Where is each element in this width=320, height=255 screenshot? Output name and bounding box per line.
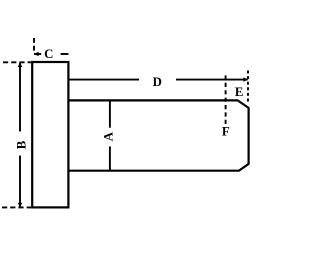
- arrowhead B bottom: [18, 203, 22, 208]
- dimension line B lower segment: [19, 156, 21, 208]
- svg-text:D: D: [153, 75, 162, 89]
- pin head outline: [32, 62, 68, 207]
- svg-text:F: F: [222, 125, 230, 139]
- extension line B bottom (dashed): [2, 206, 31, 208]
- pin shank outline with chamfered end: [68, 100, 248, 170]
- svg-text:A: A: [101, 131, 115, 141]
- dimension line A lower segment: [109, 146, 111, 170]
- dimension line B upper segment: [19, 63, 21, 132]
- extension line F (dashed vertical): [225, 75, 227, 125]
- extension line C left (dashed vertical): [33, 38, 35, 53]
- extension line end-face (dashed vertical): [247, 71, 249, 104]
- svg-text:C: C: [44, 47, 53, 61]
- arrowhead B top: [18, 62, 22, 67]
- svg-text:E: E: [235, 85, 244, 99]
- extension line B top (dashed): [3, 61, 31, 63]
- dimension line D left segment: [68, 79, 139, 81]
- dimension line A upper segment: [109, 100, 111, 127]
- svg-text:B: B: [15, 140, 29, 149]
- dimension line C right dash: [61, 53, 69, 55]
- dimension line D right segment: [176, 79, 248, 81]
- dimension line C left segment with arrow: [34, 52, 39, 56]
- arrowhead D right: [243, 77, 248, 81]
